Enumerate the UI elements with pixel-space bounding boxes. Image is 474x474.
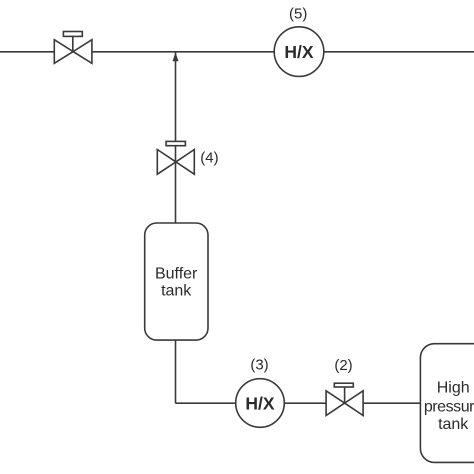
valve (4) handle bbox=[166, 141, 185, 145]
svg-text:(3): (3) bbox=[250, 356, 268, 373]
wire: bottom horizontal pipe bbox=[176, 402, 422, 404]
svg-text:(2): (2) bbox=[334, 357, 352, 374]
valve (4) bowtie on vertical pipe bbox=[157, 150, 194, 175]
svg-text:tank: tank bbox=[161, 283, 192, 300]
high pressure tank bbox=[420, 344, 474, 463]
valve (2) bbox=[326, 383, 363, 415]
buffer tank bbox=[145, 223, 208, 340]
svg-text:(5): (5) bbox=[289, 6, 307, 23]
wire: vertical pipe from top junction down to buffer tank and bottom pipe bbox=[175, 52, 177, 403]
svg-text:High: High bbox=[437, 379, 470, 396]
node: flow arrow at junction into top pipe bbox=[173, 52, 179, 61]
svg-text:H/X: H/X bbox=[284, 42, 314, 62]
svg-text:Buffer: Buffer bbox=[155, 265, 198, 282]
valve V1 (top-left, unlabeled) bbox=[54, 32, 92, 64]
heat exchanger H/X (5) bbox=[274, 27, 324, 77]
svg-text:(4): (4) bbox=[200, 150, 218, 167]
wire: top horizontal pipe bbox=[0, 51, 474, 53]
svg-text:tank: tank bbox=[438, 416, 469, 433]
svg-text:pressure: pressure bbox=[424, 398, 474, 415]
heat exchanger H/X (3) bbox=[236, 379, 285, 428]
svg-text:H/X: H/X bbox=[245, 393, 275, 413]
